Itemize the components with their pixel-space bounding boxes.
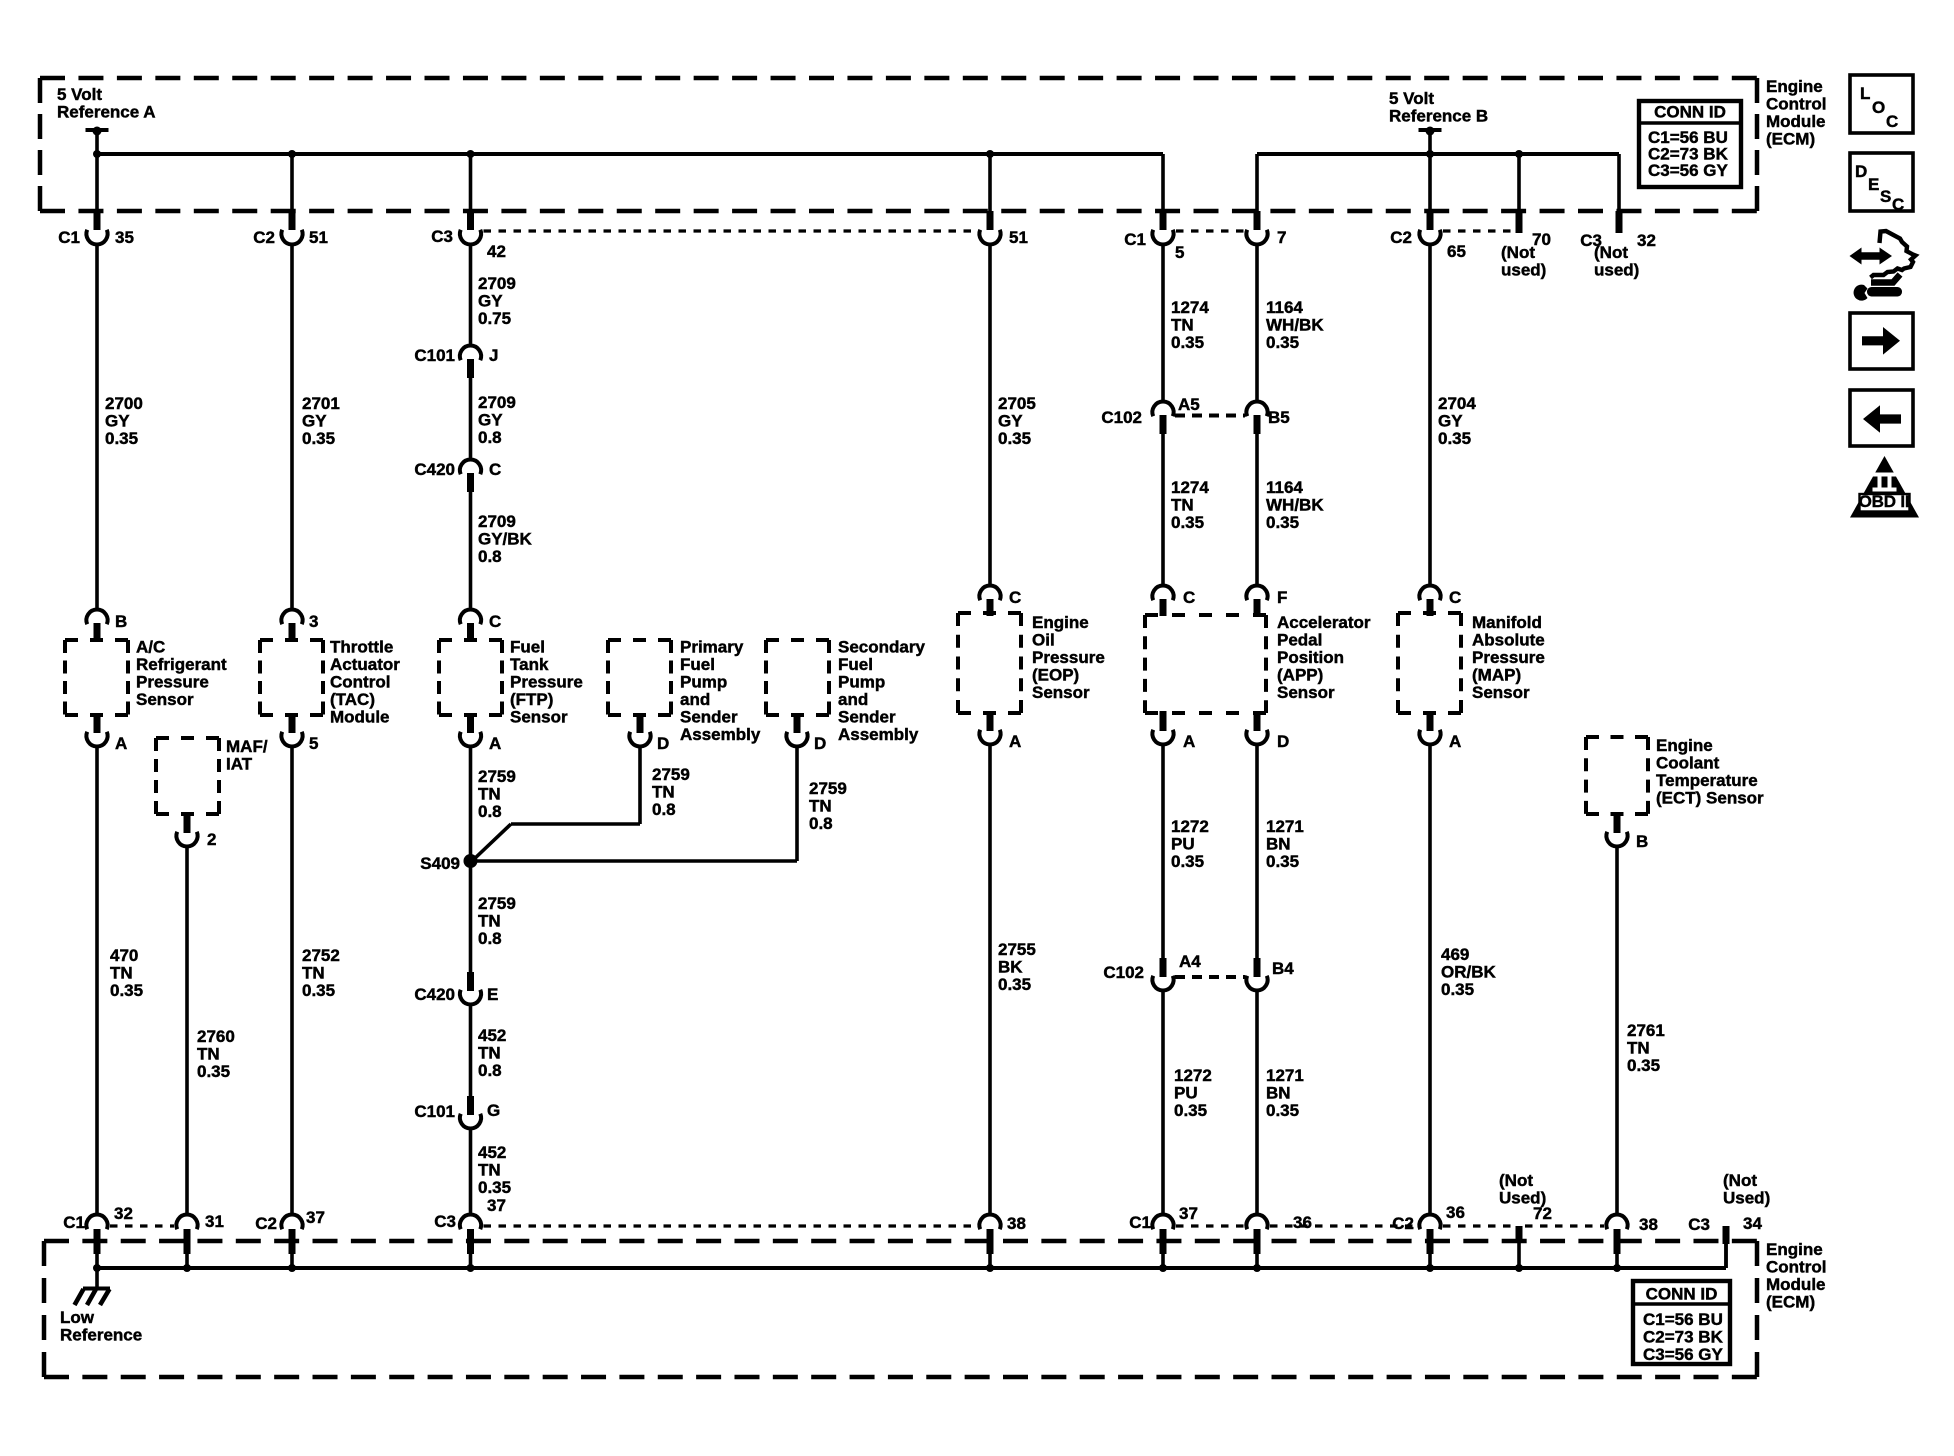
svg-text:Coolant: Coolant	[1656, 754, 1720, 773]
svg-text:Assembly: Assembly	[838, 725, 919, 744]
svg-text:(EOP): (EOP)	[1032, 666, 1079, 685]
svg-text:0.35: 0.35	[1266, 333, 1299, 352]
svg-text:D: D	[1277, 732, 1289, 751]
svg-text:0.8: 0.8	[478, 929, 502, 948]
connector pin B (A/C sensor)	[86, 610, 127, 642]
svg-text:5 Volt: 5 Volt	[1389, 89, 1434, 108]
ECM top dashed box	[40, 78, 1757, 211]
connector C420 pin C	[414, 460, 501, 492]
svg-text:C3: C3	[1688, 1215, 1710, 1234]
svg-text:Used): Used)	[1723, 1189, 1770, 1208]
svg-text:51: 51	[1009, 228, 1028, 247]
svg-text:GY: GY	[478, 292, 503, 311]
svg-text:TN: TN	[197, 1045, 220, 1064]
connector pin 38 (EOP return)	[979, 1214, 1026, 1268]
svg-text:TN: TN	[478, 912, 501, 931]
svg-text:2759: 2759	[809, 779, 847, 798]
svg-text:A4: A4	[1179, 952, 1201, 971]
svg-text:A: A	[1449, 732, 1461, 751]
wire 452 TN 0.8	[471, 1005, 507, 1097]
svg-text:2709: 2709	[478, 274, 516, 293]
svg-text:C: C	[1183, 588, 1195, 607]
wire 2709 GY 0.8	[471, 378, 516, 460]
connector C2 pin 37	[255, 1208, 325, 1268]
connector C1 pin 35	[58, 211, 134, 247]
svg-text:42: 42	[487, 242, 506, 261]
wire 2761 TN 0.35	[1617, 847, 1665, 1216]
svg-text:34: 34	[1743, 1214, 1762, 1233]
connector C102 pin B4	[1246, 958, 1294, 990]
svg-text:C3=56 GY: C3=56 GY	[1643, 1345, 1724, 1364]
svg-text:2709: 2709	[478, 393, 516, 412]
svg-text:C1: C1	[1129, 1213, 1151, 1232]
connector pin 51 (EOP feed)	[979, 211, 1028, 247]
svg-text:Sensor: Sensor	[1032, 683, 1090, 702]
svg-text:0.35: 0.35	[105, 429, 138, 448]
wire: bus B drop to 70	[1517, 154, 1521, 213]
svg-text:0.35: 0.35	[110, 981, 143, 1000]
svg-text:0.8: 0.8	[809, 814, 833, 833]
wire: low reference bus	[93, 1243, 1726, 1272]
wire 2760 TN 0.35	[187, 847, 235, 1216]
svg-text:Control: Control	[1766, 95, 1826, 114]
svg-text:(Not: (Not	[1594, 243, 1628, 262]
svg-text:2709: 2709	[478, 512, 516, 531]
svg-text:Sender: Sender	[838, 708, 896, 727]
svg-text:Fuel: Fuel	[838, 655, 873, 674]
svg-text:Pump: Pump	[838, 673, 885, 692]
wire: bus A drop to C1 35	[95, 154, 99, 213]
svg-text:WH/BK: WH/BK	[1266, 316, 1324, 335]
connector pin 70 not used	[1501, 211, 1551, 280]
A/C Refrigerant Pressure Sensor	[65, 638, 227, 716]
svg-text:0.35: 0.35	[197, 1062, 230, 1081]
svg-text:C1: C1	[1124, 230, 1146, 249]
svg-text:O: O	[1872, 98, 1885, 117]
svg-text:MAF/: MAF/	[226, 737, 268, 756]
svg-text:0.35: 0.35	[1441, 980, 1474, 999]
svg-text:S409: S409	[420, 854, 460, 873]
svg-text:2: 2	[207, 830, 216, 849]
svg-text:B5: B5	[1268, 408, 1290, 427]
MAF/IAT sensor	[156, 737, 268, 814]
svg-text:Reference: Reference	[60, 1326, 142, 1345]
wire 2759 TN 0.8 (primary pump)	[472, 747, 690, 862]
connector C3 pin 32 not used	[1580, 211, 1656, 280]
svg-text:used): used)	[1594, 261, 1639, 280]
connector pin A (A/C sensor)	[86, 713, 127, 753]
svg-text:32: 32	[114, 1204, 133, 1223]
svg-text:0.35: 0.35	[1266, 852, 1299, 871]
svg-text:TN: TN	[110, 964, 133, 983]
svg-text:Reference B: Reference B	[1389, 107, 1488, 126]
svg-text:Accelerator: Accelerator	[1277, 613, 1371, 632]
wire 1164 WH/BK 0.35 (lower)	[1257, 434, 1324, 586]
connector pin 72 not used	[1499, 1171, 1552, 1268]
svg-text:S: S	[1880, 187, 1891, 206]
svg-text:Oil: Oil	[1032, 631, 1055, 650]
svg-text:C102: C102	[1101, 408, 1142, 427]
wire 2755 BK 0.35	[990, 745, 1036, 1216]
svg-text:(Not: (Not	[1501, 243, 1535, 262]
icon arrow right	[1850, 313, 1913, 369]
svg-text:Pressure: Pressure	[510, 673, 583, 692]
svg-text:Control: Control	[1766, 1258, 1826, 1277]
svg-text:OR/BK: OR/BK	[1441, 963, 1497, 982]
connector pin 7	[1246, 211, 1286, 247]
svg-text:GY: GY	[302, 412, 327, 431]
wire 2759 TN 0.8 (FTP to S409)	[471, 747, 516, 862]
svg-text:OBD II: OBD II	[1859, 492, 1910, 511]
wire: dotted link C3 37 to 38	[484, 1224, 978, 1227]
svg-text:2761: 2761	[1627, 1021, 1665, 1040]
svg-text:0.8: 0.8	[478, 547, 502, 566]
connector C2 pin 36	[1392, 1203, 1465, 1268]
connector C101 pin G	[414, 1096, 500, 1128]
svg-text:(APP): (APP)	[1277, 666, 1323, 685]
wire: bus A drop to C2 51	[290, 154, 294, 213]
svg-text:0.35: 0.35	[1171, 852, 1204, 871]
wire 2705 GY 0.35	[990, 245, 1036, 587]
svg-text:Used): Used)	[1499, 1189, 1546, 1208]
svg-text:used): used)	[1501, 261, 1546, 280]
svg-text:(MAP): (MAP)	[1472, 666, 1521, 685]
svg-text:3: 3	[309, 612, 318, 631]
svg-text:Sender: Sender	[680, 708, 738, 727]
svg-text:(ECM): (ECM)	[1766, 130, 1815, 149]
wire 2700 GY 0.35	[97, 245, 143, 611]
svg-text:A/C: A/C	[136, 638, 165, 657]
svg-text:TN: TN	[809, 797, 832, 816]
connector pin A (EOP sensor)	[979, 711, 1021, 751]
svg-text:E: E	[1868, 175, 1879, 194]
svg-text:IAT: IAT	[226, 755, 253, 774]
wire 469 OR/BK 0.35	[1430, 745, 1497, 1216]
svg-text:Refrigerant: Refrigerant	[136, 655, 227, 674]
wire: dotted link C1 37 to 36	[1176, 1224, 1244, 1227]
svg-text:452: 452	[478, 1143, 506, 1162]
svg-text:452: 452	[478, 1026, 506, 1045]
connector C102 pin B5	[1246, 402, 1289, 434]
connector C420 pin E	[414, 972, 498, 1004]
connector C2 pin 51	[253, 211, 328, 247]
svg-text:B: B	[115, 612, 127, 631]
svg-text:GY: GY	[998, 412, 1023, 431]
svg-text:0.35: 0.35	[998, 975, 1031, 994]
svg-text:1272: 1272	[1171, 817, 1209, 836]
svg-text:5: 5	[309, 734, 318, 753]
svg-text:32: 32	[1637, 231, 1656, 250]
svg-text:BN: BN	[1266, 835, 1291, 854]
svg-text:and: and	[838, 690, 868, 709]
svg-text:C: C	[1009, 588, 1021, 607]
svg-text:0.35: 0.35	[302, 429, 335, 448]
svg-text:E: E	[487, 985, 498, 1004]
wire: dotted link C1 32 to 31	[110, 1224, 174, 1227]
icon DESC	[1850, 153, 1913, 214]
svg-text:Module: Module	[330, 708, 390, 727]
svg-text:0.35: 0.35	[1266, 1101, 1299, 1120]
svg-text:C3=56 GY: C3=56 GY	[1648, 161, 1729, 180]
connector pin B (ECT sensor)	[1606, 814, 1648, 851]
Accelerator Pedal Position (APP) Sensor	[1145, 613, 1371, 713]
Secondary Fuel Pump and Sender Assembly	[766, 638, 925, 745]
CONN ID table bottom	[1633, 1281, 1730, 1364]
svg-text:C420: C420	[414, 985, 455, 1004]
wire: dotted link C3 42 to 51	[484, 229, 978, 232]
svg-text:35: 35	[115, 228, 134, 247]
svg-text:C2: C2	[253, 228, 275, 247]
wire: dotted link C2 65 to 70	[1443, 229, 1513, 232]
svg-text:2755: 2755	[998, 940, 1036, 959]
node: 5 Volt Reference B terminal	[1389, 89, 1488, 154]
connector pin D (secondary pump)	[786, 713, 826, 753]
svg-text:D: D	[657, 734, 669, 753]
Engine Coolant Temperature (ECT) Sensor	[1586, 736, 1764, 814]
svg-text:37: 37	[487, 1196, 506, 1215]
connector C1 pin 37	[1129, 1204, 1198, 1268]
connector C1 pin 5	[1124, 211, 1184, 262]
svg-text:TN: TN	[1171, 496, 1194, 515]
svg-text:(ECM): (ECM)	[1766, 1293, 1815, 1312]
icon LOC	[1850, 75, 1913, 133]
node: 5 Volt Reference A terminal	[57, 85, 156, 154]
svg-text:38: 38	[1007, 1214, 1026, 1233]
svg-text:Engine: Engine	[1766, 77, 1823, 96]
svg-text:38: 38	[1639, 1215, 1658, 1234]
connector C3 pin 34 not used	[1688, 1171, 1770, 1268]
svg-text:PU: PU	[1171, 835, 1195, 854]
svg-text:C420: C420	[414, 460, 455, 479]
connector pin C (MAP sensor)	[1419, 586, 1461, 616]
svg-text:C2: C2	[1390, 228, 1412, 247]
svg-text:0.35: 0.35	[302, 981, 335, 1000]
svg-text:0.35: 0.35	[478, 1178, 511, 1197]
svg-text:Tank: Tank	[510, 655, 549, 674]
svg-text:Sensor: Sensor	[1277, 683, 1335, 702]
svg-text:37: 37	[1179, 1204, 1198, 1223]
svg-text:2759: 2759	[652, 765, 690, 784]
svg-text:5: 5	[1175, 243, 1184, 262]
Fuel Tank Pressure (FTP) Sensor	[439, 638, 583, 727]
svg-text:(FTP): (FTP)	[510, 690, 553, 709]
svg-text:0.8: 0.8	[478, 1061, 502, 1080]
svg-text:Engine: Engine	[1766, 1240, 1823, 1259]
wire: 5V Reference B bus	[1257, 150, 1619, 213]
Manifold Absolute Pressure (MAP) Sensor	[1398, 613, 1545, 713]
svg-text:TN: TN	[1171, 316, 1194, 335]
connector C2 pin 65	[1390, 211, 1466, 261]
svg-text:G: G	[487, 1101, 500, 1120]
svg-text:A: A	[1009, 732, 1021, 751]
wire 1271 BN 0.35 (lower)	[1257, 991, 1304, 1216]
svg-text:C3: C3	[434, 1212, 456, 1231]
svg-text:0.35: 0.35	[1266, 513, 1299, 532]
svg-text:5 Volt: 5 Volt	[57, 85, 102, 104]
svg-text:PU: PU	[1174, 1084, 1198, 1103]
svg-text:WH/BK: WH/BK	[1266, 496, 1324, 515]
connector pin D (APP sensor)	[1246, 711, 1289, 751]
svg-text:1164: 1164	[1266, 298, 1303, 317]
svg-text:Pressure: Pressure	[136, 673, 209, 692]
connector C102 pin A4	[1103, 952, 1201, 990]
svg-text:C: C	[1892, 195, 1904, 214]
ground (low reference)	[60, 1268, 142, 1345]
svg-text:A: A	[489, 734, 501, 753]
wire 2709 GY 0.75	[471, 245, 516, 347]
wire 1274 TN 0.35 (upper)	[1163, 245, 1209, 403]
svg-text:0.8: 0.8	[478, 802, 502, 821]
svg-text:Assembly: Assembly	[680, 725, 761, 744]
connector pin A (FTP sensor)	[460, 713, 501, 753]
connector pin C (FTP sensor)	[460, 610, 501, 642]
svg-text:0.35: 0.35	[1171, 513, 1204, 532]
svg-text:2701: 2701	[302, 394, 340, 413]
svg-text:1271: 1271	[1266, 817, 1304, 836]
svg-text:C: C	[1886, 112, 1898, 131]
connector pin 36	[1246, 1213, 1312, 1268]
svg-text:C: C	[1449, 588, 1461, 607]
wire: dotted link C102 A4-B4	[1175, 975, 1245, 979]
svg-text:0.35: 0.35	[1171, 333, 1204, 352]
svg-text:GY/BK: GY/BK	[478, 530, 533, 549]
CONN ID table top	[1639, 101, 1741, 187]
svg-text:C101: C101	[414, 346, 455, 365]
svg-text:B4: B4	[1272, 959, 1294, 978]
svg-text:C102: C102	[1103, 963, 1144, 982]
wire 2704 GY 0.35	[1430, 245, 1476, 587]
wire 452 TN 0.35	[471, 1129, 512, 1216]
svg-text:Sensor: Sensor	[510, 708, 568, 727]
ECM top label	[1766, 77, 1826, 149]
connector pin 38 (ECT return)	[1606, 1215, 1658, 1268]
svg-text:1271: 1271	[1266, 1066, 1304, 1085]
wire 2759 TN 0.8 (secondary pump)	[471, 747, 847, 862]
svg-text:1164: 1164	[1266, 478, 1303, 497]
svg-text:GY: GY	[478, 411, 503, 430]
icon hand with wrench (adjust)	[1850, 231, 1916, 301]
svg-text:Pressure: Pressure	[1032, 648, 1105, 667]
svg-text:F: F	[1277, 588, 1287, 607]
svg-text:0.75: 0.75	[478, 309, 511, 328]
connector C1 pin 32	[63, 1204, 133, 1268]
svg-text:1274: 1274	[1171, 298, 1209, 317]
svg-text:Primary: Primary	[680, 638, 744, 657]
connector C3 pin 37	[434, 1196, 506, 1268]
svg-text:Pedal: Pedal	[1277, 631, 1322, 650]
connector C102 pin A5	[1101, 395, 1199, 434]
svg-text:TN: TN	[302, 964, 325, 983]
svg-text:51: 51	[309, 228, 328, 247]
svg-text:Module: Module	[1766, 112, 1826, 131]
connector pin F (APP sensor)	[1246, 586, 1287, 616]
svg-text:Fuel: Fuel	[680, 655, 715, 674]
svg-text:BK: BK	[998, 958, 1023, 977]
svg-text:2705: 2705	[998, 394, 1036, 413]
wire 2759 TN 0.8 (S409 down)	[471, 861, 516, 972]
svg-text:0.35: 0.35	[1627, 1056, 1660, 1075]
svg-text:2752: 2752	[302, 946, 340, 965]
svg-text:TN: TN	[478, 785, 501, 804]
wire: bus A drop to 51	[988, 154, 992, 213]
svg-text:7: 7	[1277, 228, 1286, 247]
svg-text:0.35: 0.35	[1174, 1101, 1207, 1120]
svg-text:CONN ID: CONN ID	[1646, 1285, 1718, 1304]
svg-text:Actuator: Actuator	[330, 655, 400, 674]
wire: dotted link 72 to 38	[1525, 1224, 1604, 1227]
wire 1272 PU 0.35 (upper)	[1163, 745, 1209, 959]
connector pin 3 (TAC)	[281, 610, 318, 642]
svg-text:TN: TN	[478, 1161, 501, 1180]
ECM bottom dashed box	[44, 1241, 1757, 1377]
svg-text:Throttle: Throttle	[330, 638, 393, 657]
svg-text:TN: TN	[1627, 1039, 1650, 1058]
Primary Fuel Pump and Sender Assembly	[608, 638, 761, 745]
svg-text:A: A	[115, 734, 127, 753]
svg-text:GY: GY	[105, 412, 130, 431]
svg-text:CONN ID: CONN ID	[1654, 103, 1726, 122]
svg-text:Fuel: Fuel	[510, 638, 545, 657]
wire: dotted link 36 to C2 36	[1270, 1224, 1417, 1227]
svg-text:C1=56 BU: C1=56 BU	[1643, 1310, 1723, 1329]
svg-text:Temperature: Temperature	[1656, 771, 1758, 790]
svg-text:(ECT) Sensor: (ECT) Sensor	[1656, 789, 1764, 808]
svg-text:Sensor: Sensor	[136, 690, 194, 709]
icon arrow left	[1850, 390, 1913, 446]
svg-text:D: D	[1855, 162, 1867, 181]
svg-text:C1: C1	[58, 228, 80, 247]
svg-text:Reference A: Reference A	[57, 103, 156, 122]
connector pin 2 (MAF/IAT)	[176, 814, 216, 849]
svg-text:C: C	[489, 612, 501, 631]
icon OBD II triangle	[1850, 456, 1919, 518]
svg-text:C2: C2	[1392, 1214, 1414, 1233]
svg-text:0.35: 0.35	[1438, 429, 1471, 448]
svg-text:65: 65	[1447, 242, 1466, 261]
connector pin C (APP sensor)	[1152, 586, 1195, 616]
connector pin C (EOP sensor)	[979, 586, 1021, 616]
svg-text:2700: 2700	[105, 394, 143, 413]
svg-text:1274: 1274	[1171, 478, 1209, 497]
svg-text:Absolute: Absolute	[1472, 631, 1545, 650]
connector pin 31	[176, 1212, 224, 1268]
connector pin 5 (TAC)	[281, 713, 318, 753]
svg-text:D: D	[814, 734, 826, 753]
svg-text:Sensor: Sensor	[1472, 683, 1530, 702]
svg-text:Pressure: Pressure	[1472, 648, 1545, 667]
svg-text:31: 31	[205, 1212, 224, 1231]
wire: 5V Reference A bus	[93, 150, 1163, 213]
svg-text:TN: TN	[478, 1044, 501, 1063]
svg-text:B: B	[1636, 832, 1648, 851]
svg-text:Control: Control	[330, 673, 390, 692]
svg-text:Module: Module	[1766, 1275, 1826, 1294]
svg-text:0.8: 0.8	[478, 428, 502, 447]
connector C3 pin 42	[431, 211, 506, 261]
svg-text:2760: 2760	[197, 1027, 235, 1046]
svg-text:36: 36	[1293, 1213, 1312, 1232]
wire 1271 BN 0.35 (upper)	[1257, 745, 1304, 959]
svg-text:Engine: Engine	[1032, 613, 1089, 632]
svg-text:TN: TN	[652, 783, 675, 802]
svg-text:2759: 2759	[478, 767, 516, 786]
svg-text:36: 36	[1446, 1203, 1465, 1222]
svg-text:2759: 2759	[478, 894, 516, 913]
svg-text:BN: BN	[1266, 1084, 1291, 1103]
wire 2752 TN 0.35	[292, 747, 340, 1216]
wire 1272 PU 0.35 (lower)	[1163, 991, 1212, 1216]
svg-text:Manifold: Manifold	[1472, 613, 1542, 632]
